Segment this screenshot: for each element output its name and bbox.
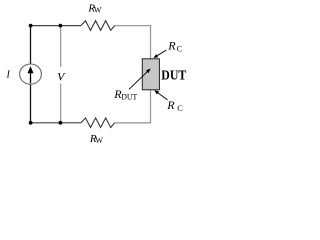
resistor RW (top): [81, 21, 115, 31]
resistor RW (bottom): [81, 118, 115, 128]
DUT body: [142, 59, 159, 90]
svg-text:DUT: DUT: [121, 93, 137, 102]
node dot top-left: [29, 24, 33, 28]
annotation arrow RC top: [153, 50, 166, 58]
svg-text:DUT: DUT: [161, 68, 186, 83]
svg-text:W: W: [94, 6, 102, 15]
annotation arrow RC bottom: [154, 90, 167, 100]
node dot bottom-middle: [59, 121, 63, 125]
svg-text:R: R: [167, 39, 176, 53]
annotation arrow RDUT: [129, 69, 151, 90]
node dot top-middle: [59, 24, 63, 28]
wire top-left horizontal: [31, 25, 82, 27]
wire bottom-right horizontal and right vertical lower: [115, 90, 151, 123]
current source I: [20, 64, 42, 84]
voltmeter branch V (gray wire with gap): [60, 26, 62, 123]
wire top-right horizontal and right vertical upper: [115, 26, 151, 59]
wire bottom-left horizontal: [31, 122, 82, 124]
node dot bottom-left: [29, 121, 33, 125]
wire left vertical: [30, 26, 32, 123]
svg-text:C: C: [177, 44, 183, 53]
svg-text:I: I: [6, 70, 11, 81]
svg-text:C: C: [177, 104, 183, 113]
svg-text:R: R: [166, 98, 175, 112]
svg-text:W: W: [95, 136, 103, 145]
